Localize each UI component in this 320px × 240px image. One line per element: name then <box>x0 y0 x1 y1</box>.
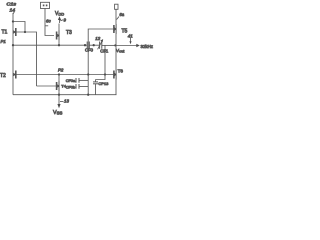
node dot (105,74.5) <box>104 73 106 75</box>
node dot (93.7,45.2) <box>93 44 95 46</box>
svg-text:Vout: Vout <box>116 48 125 53</box>
transistor T3 <box>57 24 60 46</box>
node dot (59,94.7) <box>58 94 60 96</box>
svg-text:T5: T5 <box>122 29 128 35</box>
label 41 with down tick <box>128 33 133 44</box>
wire vertical x=88.2 crystal-right column with top wire to T5 gate <box>88 29 114 95</box>
svg-text:9: 9 <box>64 18 67 23</box>
wire Vout column to T6 <box>115 46 117 70</box>
node junction dot (25,32) <box>24 31 26 33</box>
svg-text:13: 13 <box>64 99 69 104</box>
node dot (88.2,94.7) <box>87 94 89 96</box>
transistor T1 <box>13 22 16 46</box>
capacitor CF0a <box>66 78 88 83</box>
svg-text:T3: T3 <box>66 30 72 36</box>
label 6a with leader <box>117 12 125 20</box>
capacitor CF0b <box>66 84 88 89</box>
wire H2 right segment to Vout node <box>102 44 116 46</box>
terminal box top right <box>115 4 118 9</box>
node dot (59,45.2) <box>58 44 60 46</box>
svg-text:T4: T4 <box>61 83 66 88</box>
wire H1 from T1 gate to vertical x=36.5 <box>16 32 36 86</box>
transistor T2 <box>13 45 16 94</box>
svg-text:6a: 6a <box>119 12 124 17</box>
wire output arrow <box>116 45 137 47</box>
svg-text:VDD: VDD <box>55 11 64 17</box>
power VDD arrow <box>58 16 61 23</box>
node dot (13,45.2) <box>12 44 14 46</box>
transistor T5 <box>114 9 117 45</box>
svg-text:VSS: VSS <box>53 110 62 116</box>
svg-text:T2: T2 <box>0 73 6 79</box>
svg-text:T1: T1 <box>2 30 8 36</box>
label 13 with leader tick <box>60 99 69 104</box>
node dot (85,45.2) <box>84 44 86 46</box>
wire H2 main horizontal <box>13 44 87 46</box>
svg-text:CF0b: CF0b <box>66 85 75 89</box>
svg-text:CP13: CP13 <box>98 81 109 86</box>
svg-text:P1: P1 <box>1 39 7 44</box>
svg-text:T6: T6 <box>118 68 124 73</box>
capacitor CF1 (variable) <box>98 39 104 49</box>
wire VSS rail <box>13 94 117 96</box>
svg-text:6c: 6c <box>46 19 51 24</box>
transistor T4 <box>57 75 60 95</box>
capacitor CF0 <box>87 42 89 49</box>
svg-text:CF0a: CF0a <box>66 79 76 83</box>
wire T4 gate from x=36.5 <box>37 85 57 87</box>
wire top-left vertical <box>12 13 14 22</box>
svg-text:C1s: C1s <box>7 2 18 7</box>
node dot (59,74.5) <box>58 73 60 75</box>
wire H3 node P2 horizontal <box>16 74 114 76</box>
wire branch over to x=25 down to H1 <box>13 22 25 33</box>
crystal box C3 top-middle <box>41 2 50 8</box>
wire between CF0 and CF1 <box>89 44 99 46</box>
transistor T6 <box>114 70 117 95</box>
svg-text:32kHz: 32kHz <box>141 44 153 49</box>
capacitor CP13 <box>93 80 98 95</box>
svg-text:41: 41 <box>128 33 133 38</box>
node C1s terminal label (top-left cluster) <box>7 2 18 15</box>
svg-text:CF0: CF0 <box>85 47 94 52</box>
svg-text:P2: P2 <box>58 67 64 72</box>
node dot (88.2,74.5) <box>87 73 89 75</box>
wire x=105 from H2 down with jog to CP13 column <box>96 45 106 79</box>
power VSS arrow <box>57 95 60 109</box>
wire box stem down to T3 gate <box>45 9 54 36</box>
node junction dot (13,21.5) <box>12 20 14 22</box>
svg-text:12: 12 <box>95 36 100 41</box>
node Vout dot <box>114 44 116 46</box>
